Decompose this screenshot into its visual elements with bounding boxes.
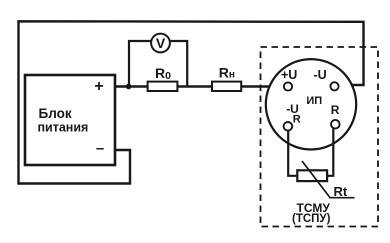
svg-text:(ТСПУ): (ТСПУ) (292, 213, 331, 225)
svg-text:питания: питания (38, 121, 89, 135)
svg-text:Блок: Блок (39, 106, 72, 121)
svg-text:ИП: ИП (306, 95, 322, 107)
svg-text:+U: +U (281, 68, 297, 82)
svg-text:Rt: Rt (334, 184, 348, 199)
svg-text:R: R (293, 113, 301, 125)
svg-text:V: V (156, 35, 166, 51)
svg-text:+: + (94, 78, 103, 95)
svg-text:–: – (96, 140, 104, 157)
svg-text:-U: -U (314, 68, 327, 82)
svg-text:R: R (331, 103, 340, 117)
